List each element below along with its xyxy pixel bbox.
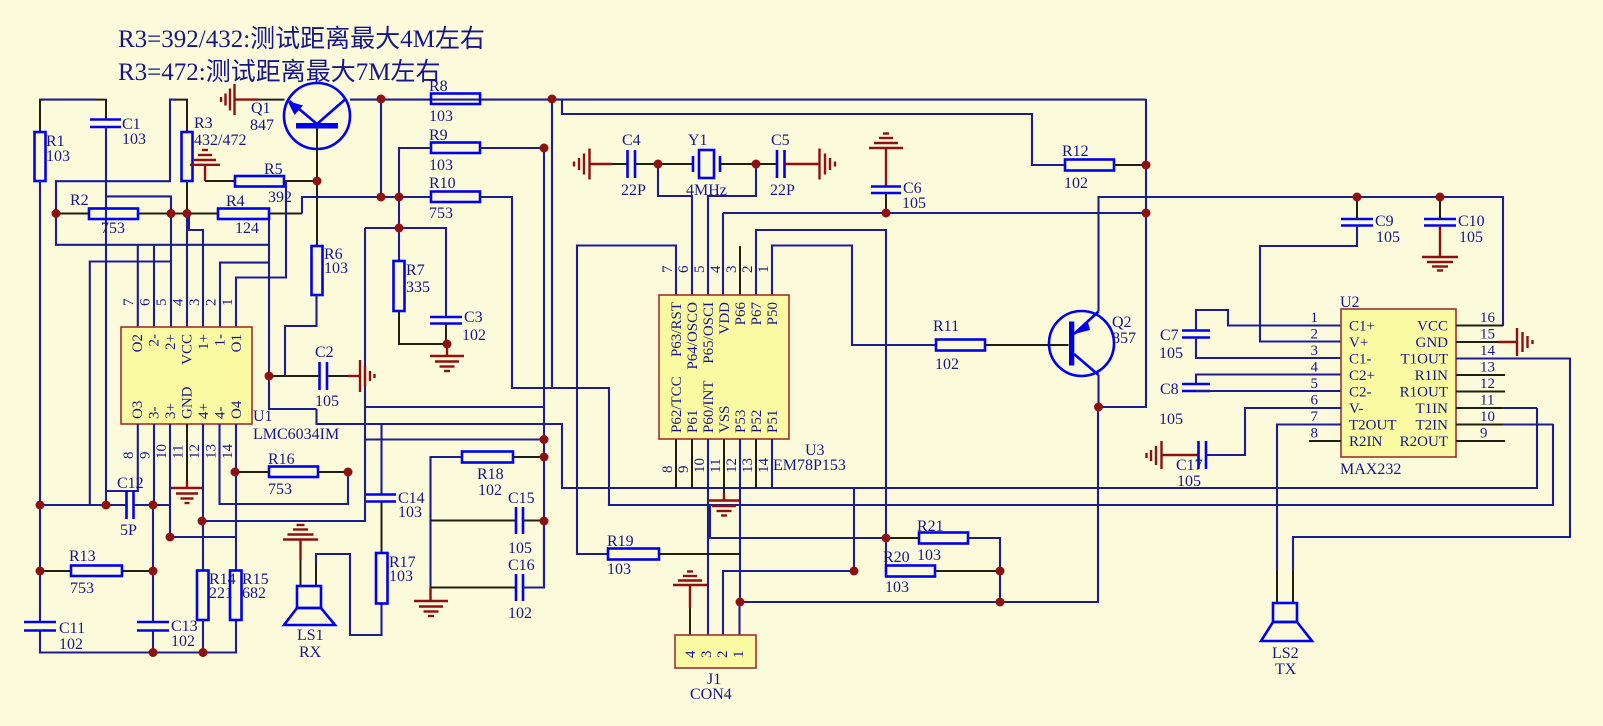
resistor R18 (462, 452, 513, 463)
capacitor C7 (1182, 329, 1210, 332)
transistor Q1 (250, 83, 350, 149)
svg-text:R20: R20 (883, 549, 910, 566)
svg-text:4+: 4+ (196, 403, 212, 419)
wire U2 pin15 GND (1456, 341, 1498, 343)
wire U3 pin11 to ground (723, 439, 725, 493)
svg-text:102: 102 (935, 356, 959, 373)
svg-text:P64/OSCO: P64/OSCO (685, 302, 701, 370)
svg-text:105: 105 (315, 393, 339, 410)
wire U2 pin11 T1IN stub (1456, 407, 1503, 409)
svg-text:105: 105 (902, 195, 926, 212)
svg-text:O4: O4 (229, 400, 245, 419)
svg-text:R9: R9 (429, 127, 448, 144)
resistor R13 (71, 566, 122, 577)
wire middle vertical from top rail (551, 99, 553, 388)
wire ground to Q1 emitter (258, 99, 285, 101)
svg-text:6: 6 (138, 298, 154, 306)
resistor R4 (218, 209, 269, 220)
svg-text:12: 12 (724, 458, 740, 473)
capacitor C15 (515, 507, 518, 534)
svg-text:103: 103 (122, 131, 146, 148)
IC U2 MAX232 (1311, 294, 1496, 478)
svg-text:C10: C10 (1458, 213, 1485, 230)
ground under R3 (190, 150, 220, 181)
ground above J1 (673, 572, 707, 609)
svg-text:103: 103 (429, 157, 453, 174)
svg-text:2: 2 (1311, 327, 1319, 343)
capacitor C1 (90, 118, 121, 121)
svg-text:MAX232: MAX232 (1340, 461, 1401, 478)
svg-text:16: 16 (1480, 310, 1496, 326)
microcontroller U3 EM78P153 (659, 265, 846, 474)
wire T2IN to stair (1503, 423, 1553, 425)
svg-text:T1IN: T1IN (1416, 401, 1449, 417)
svg-text:105: 105 (1159, 411, 1183, 428)
wire U2 pin8 stub (1309, 440, 1341, 442)
svg-text:T2IN: T2IN (1416, 418, 1449, 434)
svg-text:C8: C8 (1160, 381, 1179, 398)
wire T1IN to stair (1503, 407, 1537, 409)
svg-text:13: 13 (1480, 360, 1495, 376)
svg-text:R19: R19 (607, 533, 634, 550)
resistor R15 (230, 571, 242, 621)
wire R9 right to C15 column (480, 148, 544, 588)
svg-text:O2: O2 (130, 334, 146, 352)
wire C8 top to C2+ (1196, 375, 1341, 385)
svg-text:11: 11 (171, 445, 187, 459)
svg-text:8: 8 (660, 466, 676, 474)
svg-text:O1: O1 (229, 334, 245, 352)
svg-text:3+: 3+ (163, 403, 179, 419)
ground right of C2 (348, 360, 375, 392)
svg-text:C16: C16 (508, 557, 535, 574)
svg-text:C4: C4 (622, 132, 641, 149)
capacitor C14 (366, 493, 396, 496)
svg-text:R5: R5 (264, 161, 283, 178)
svg-text:3-: 3- (147, 407, 163, 420)
wire C6 bottom (885, 193, 887, 213)
svg-text:102: 102 (59, 636, 83, 653)
resistor R6 (312, 246, 323, 295)
svg-text:753: 753 (101, 220, 125, 237)
wire C14 top (380, 424, 382, 495)
svg-text:11: 11 (708, 459, 724, 473)
wire U2 pin14 T1OUT to LS2 (1293, 359, 1570, 571)
svg-text:1: 1 (1311, 310, 1319, 326)
wire R1 bottom long vertical (39, 181, 41, 622)
svg-text:2-: 2- (147, 334, 163, 347)
svg-text:R10: R10 (429, 175, 456, 192)
wire R10 right stair (480, 197, 1553, 505)
ground left of C4 (574, 149, 612, 180)
wire R16 left (235, 471, 269, 473)
svg-text:R3=472:测试距离最大7M左右: R3=472:测试距离最大7M左右 (118, 58, 440, 86)
wire C9 bottom to V+ (1260, 226, 1357, 342)
wire U1 pin7 net (56, 214, 269, 245)
svg-text:22P: 22P (770, 182, 795, 199)
svg-text:Q2: Q2 (1112, 314, 1132, 331)
wire R18 right (513, 456, 544, 458)
wire U1 area to C14/T1IN stair (317, 408, 1538, 488)
wire C1 bottom net (105, 127, 107, 505)
wire U3 pin2 net (756, 230, 886, 571)
capacitor C6 (871, 185, 901, 188)
wire U1 pin6 (153, 245, 155, 327)
resistor R11 (936, 340, 985, 351)
capacitor C10 (1424, 218, 1456, 221)
wire C9 top (1356, 197, 1358, 219)
wire J1 pin1 and supply row y=602 (740, 99, 1147, 635)
wire Y1 to C5 (720, 163, 777, 165)
svg-text:CON4: CON4 (690, 686, 732, 703)
ground under C3 (430, 344, 464, 371)
capacitor C11 (24, 621, 56, 624)
svg-text:C2: C2 (315, 344, 334, 361)
wire R8 vertical branch (380, 99, 382, 197)
svg-text:10: 10 (692, 458, 708, 473)
svg-text:R12: R12 (1062, 143, 1089, 160)
resistor R20 (886, 566, 935, 577)
wire C14 bottom to R17 (381, 502, 383, 554)
svg-text:103: 103 (46, 148, 70, 165)
svg-text:P52: P52 (749, 410, 765, 433)
svg-text:1: 1 (220, 299, 236, 307)
wire R7 bottom to C3 (399, 311, 447, 344)
ground above LS1 (283, 525, 318, 560)
wire to C4 (612, 163, 628, 165)
capacitor C9 (1341, 218, 1373, 221)
svg-text:P67: P67 (749, 302, 765, 326)
wire U3 pin4 (722, 213, 724, 295)
svg-text:P65/OSCI: P65/OSCI (701, 302, 717, 364)
wire U1 pin8 (106, 424, 138, 491)
resistor R9 (431, 143, 480, 154)
svg-text:8: 8 (1311, 426, 1319, 442)
wire U2 pin16 stub (1456, 325, 1503, 327)
svg-text:105: 105 (1376, 229, 1400, 246)
svg-text:5: 5 (1311, 376, 1319, 392)
wire U1 pin11 to ground (186, 424, 188, 481)
wire Q2 emitter to VCC row y=197 (1099, 197, 1504, 326)
svg-text:C9: C9 (1375, 213, 1394, 230)
svg-text:847: 847 (250, 117, 274, 134)
wire J1 pin4 (689, 608, 691, 635)
capacitor C16 (515, 574, 518, 601)
svg-text:P60/INT: P60/INT (701, 381, 717, 434)
resistor R12 (1065, 160, 1114, 171)
svg-text:15: 15 (1480, 327, 1495, 343)
svg-text:Y1: Y1 (688, 132, 708, 149)
svg-text:Q1: Q1 (251, 100, 271, 117)
svg-text:3: 3 (724, 266, 740, 274)
ground above C6 (869, 134, 903, 187)
resistor R1 (35, 132, 46, 181)
svg-text:LS2: LS2 (1272, 645, 1299, 662)
wire U1 pin9 (153, 424, 155, 505)
svg-text:P63/RST: P63/RST (669, 302, 685, 357)
wire U1 pin14 (235, 424, 237, 571)
wire R21 row to T2IN net (710, 505, 886, 538)
ground U1 pin11 (171, 481, 203, 503)
svg-text:7: 7 (1311, 409, 1319, 425)
wire mid row y=407 (365, 406, 544, 408)
svg-text:105: 105 (508, 540, 532, 557)
svg-text:EM78P153: EM78P153 (773, 457, 846, 474)
svg-text:C1-: C1- (1349, 352, 1372, 368)
svg-text:VDD: VDD (717, 302, 733, 335)
ground left of C17 (1147, 441, 1199, 469)
resistor R17 (376, 553, 388, 604)
svg-text:105: 105 (1177, 473, 1201, 490)
wire VDD row y=213 (723, 212, 1146, 214)
svg-text:R1OUT: R1OUT (1400, 385, 1448, 401)
wire U1 pin13 (220, 424, 349, 504)
wire U1 pin2 net (268, 219, 270, 376)
svg-text:C15: C15 (508, 490, 535, 507)
svg-text:4: 4 (171, 298, 187, 306)
svg-text:12: 12 (187, 444, 203, 459)
svg-text:5P: 5P (120, 522, 137, 539)
wire R3 top net (173, 100, 187, 132)
wire C2 left (269, 375, 320, 377)
svg-text:102: 102 (1064, 175, 1088, 192)
wire U1 pin5 net (170, 214, 172, 328)
svg-text:R2: R2 (70, 192, 89, 209)
resistor R8 (431, 94, 480, 105)
wire C3 bottom (445, 324, 447, 345)
wire U2 pin10 T2IN stub (1456, 424, 1503, 426)
wire U2 pin9 stub (1456, 440, 1505, 442)
wire R5 left (205, 180, 235, 182)
svg-text:T1OUT: T1OUT (1401, 352, 1449, 368)
svg-text:1: 1 (756, 266, 772, 274)
svg-text:3: 3 (187, 299, 203, 307)
capacitor C8 (1182, 383, 1210, 386)
svg-text:14: 14 (1480, 343, 1496, 359)
svg-text:V+: V+ (1349, 335, 1368, 351)
svg-text:102: 102 (478, 482, 502, 499)
wire U1 pin12 (202, 424, 204, 571)
svg-text:P61: P61 (685, 410, 701, 433)
svg-text:VCC: VCC (1417, 319, 1448, 335)
wire C10 top (1439, 197, 1441, 219)
svg-text:1+: 1+ (196, 334, 212, 350)
capacitor C13 (137, 621, 169, 624)
svg-text:9: 9 (676, 466, 692, 474)
wire R21 right (968, 538, 1000, 602)
svg-text:2+: 2+ (163, 334, 179, 350)
wire R3 bottom (186, 181, 188, 214)
svg-text:3: 3 (1311, 343, 1319, 359)
svg-text:VCC: VCC (180, 334, 196, 365)
wire J1 pin2 (723, 571, 854, 635)
svg-text:7: 7 (660, 265, 676, 273)
svg-text:103: 103 (917, 547, 941, 564)
crystal Y1 (686, 132, 727, 199)
wire y=439 cross (365, 438, 544, 440)
svg-text:22P: 22P (621, 182, 646, 199)
resistor R3 (182, 132, 193, 181)
resistor R7 (394, 261, 405, 311)
wire U2 pin13 stub (1456, 374, 1505, 376)
wire collector top rail y=99 (350, 99, 1146, 101)
wire R7 branch row y=228 (365, 228, 446, 317)
capacitor C4 (626, 150, 629, 178)
wire R19 right (659, 553, 740, 555)
svg-text:102: 102 (462, 327, 486, 344)
wire U1 pin3 (189, 214, 203, 328)
wire R5 right to base (284, 180, 317, 182)
svg-text:105: 105 (1159, 345, 1183, 362)
svg-text:335: 335 (406, 279, 430, 296)
svg-text:LMC6034IM: LMC6034IM (253, 426, 339, 443)
svg-text:432/472: 432/472 (194, 132, 246, 149)
capacitor C17 (1197, 441, 1200, 469)
svg-text:C12: C12 (117, 475, 144, 492)
svg-text:13: 13 (204, 444, 220, 459)
svg-text:4: 4 (708, 265, 724, 273)
wire U2 pin7 T2OUT to LS2 (1277, 425, 1341, 571)
wire R20 right (935, 570, 1000, 572)
svg-text:R7: R7 (406, 262, 425, 279)
svg-text:857: 857 (1112, 330, 1136, 347)
svg-text:R3: R3 (194, 115, 213, 132)
wire R11 right to Q2 base (985, 344, 1069, 346)
svg-text:14: 14 (220, 444, 236, 460)
wire U3 pin13 stub (755, 439, 757, 488)
svg-text:T2OUT: T2OUT (1349, 418, 1397, 434)
wire U1 pin4 (186, 214, 188, 328)
svg-text:753: 753 (268, 481, 292, 498)
svg-text:12: 12 (1480, 376, 1495, 392)
svg-text:P53: P53 (733, 410, 749, 433)
svg-text:1: 1 (731, 651, 747, 659)
svg-text:753: 753 (70, 580, 94, 597)
wire U3 pin3 stub (739, 246, 741, 295)
ground under C15 C16 node (414, 588, 448, 617)
wire h505 row (40, 504, 127, 506)
svg-text:R16: R16 (268, 451, 295, 468)
wire R21 left (886, 537, 919, 539)
svg-text:V-: V- (1349, 401, 1363, 417)
svg-text:4: 4 (683, 650, 699, 658)
svg-text:10: 10 (154, 444, 170, 459)
svg-text:2: 2 (740, 266, 756, 274)
capacitor C12 (125, 491, 128, 519)
svg-text:105: 105 (1459, 229, 1483, 246)
svg-text:4: 4 (1311, 360, 1319, 376)
wire C2 node vertical (269, 376, 317, 409)
wire Q1 base down to R6 (316, 128, 318, 246)
wire C7 bottom to C1- (1196, 338, 1341, 359)
speaker LS2 (1261, 570, 1312, 678)
wire U3 pin10 to J1 pin3 (707, 439, 709, 635)
svg-text:14: 14 (756, 458, 772, 474)
resistor R19 (608, 549, 659, 560)
ground VSS (707, 493, 741, 516)
wire R12 right (1114, 164, 1146, 166)
wire C4 to Y1 (635, 163, 693, 165)
transistor Q2 (1049, 311, 1136, 376)
svg-text:C2-: C2- (1349, 385, 1372, 401)
svg-text:C7: C7 (1160, 327, 1179, 344)
wire LS1 right to R17 (316, 554, 382, 635)
svg-text:3: 3 (699, 651, 715, 659)
wire C13 bottom (152, 631, 154, 653)
wire top jog to R12 (562, 99, 1065, 165)
svg-text:LS1: LS1 (297, 627, 324, 644)
wire R14 bottom (202, 620, 204, 653)
svg-text:103: 103 (389, 568, 413, 585)
wire C7 top to C1+ (1196, 310, 1341, 331)
svg-text:103: 103 (607, 561, 631, 578)
svg-text:102: 102 (171, 633, 195, 650)
svg-text:R8: R8 (429, 78, 448, 95)
wire C2 right (327, 375, 348, 377)
wire C1 to R2 right dot (106, 196, 171, 213)
ground at U2 pin15 (1498, 328, 1533, 356)
svg-text:11: 11 (1480, 393, 1494, 409)
svg-text:6: 6 (676, 265, 692, 273)
svg-text:R21: R21 (917, 518, 944, 535)
svg-text:P66: P66 (733, 302, 749, 326)
ground right of C5 (785, 149, 836, 180)
svg-text:5: 5 (154, 299, 170, 307)
resistor R14 (197, 571, 209, 621)
wire OSC to U3 pin6 (658, 164, 692, 295)
ground under C10 (1422, 226, 1458, 271)
svg-text:6: 6 (1311, 393, 1319, 409)
svg-text:2: 2 (715, 651, 731, 659)
svg-text:R3=392/432:测试距离最大4M左右: R3=392/432:测试距离最大4M左右 (118, 25, 485, 53)
svg-text:103: 103 (429, 108, 453, 125)
svg-text:TX: TX (1275, 661, 1297, 678)
svg-text:C17: C17 (1176, 457, 1203, 474)
wire U3 pin12 to R19/J1 (739, 439, 741, 602)
svg-text:P51: P51 (765, 410, 781, 433)
svg-text:R1IN: R1IN (1415, 368, 1449, 384)
resistor R2 (89, 209, 138, 220)
svg-text:103: 103 (885, 579, 909, 596)
wire U1 pin10 (170, 424, 235, 537)
wire left mid column (202, 228, 365, 521)
wire R16 right (318, 471, 348, 473)
svg-text:R11: R11 (933, 318, 959, 335)
svg-text:C2+: C2+ (1349, 368, 1375, 384)
svg-text:C1+: C1+ (1349, 319, 1375, 335)
resistor R21 (919, 533, 968, 544)
capacitor C5 (776, 150, 779, 178)
svg-text:13: 13 (740, 458, 756, 473)
svg-text:R13: R13 (69, 548, 96, 565)
wire pin5 branch left (90, 262, 171, 506)
svg-text:124: 124 (235, 220, 259, 237)
wire main row y=213 (56, 213, 89, 215)
wire U3 pin9 stub (691, 439, 693, 488)
svg-text:682: 682 (242, 585, 266, 602)
svg-text:R2IN: R2IN (1349, 434, 1383, 450)
svg-text:GND: GND (1416, 335, 1449, 351)
wire bottom row y=652 (40, 620, 236, 653)
svg-text:7: 7 (121, 298, 137, 306)
svg-text:C11: C11 (59, 620, 85, 637)
wire U3 pin1 net to R11 (772, 246, 936, 346)
wire OSC to U3 pin5 (708, 164, 756, 295)
resistor R5 (235, 176, 284, 187)
wire R13 row (40, 570, 71, 572)
wire U3 pin8 stub (675, 439, 677, 488)
svg-text:8: 8 (121, 452, 137, 460)
